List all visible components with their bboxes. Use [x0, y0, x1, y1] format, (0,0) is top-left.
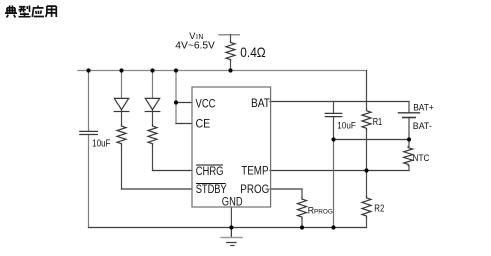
- overline CHRG: [196, 164, 223, 166]
- svg-text:NTC: NTC: [413, 153, 430, 164]
- svg-text:0.4Ω: 0.4Ω: [240, 45, 265, 60]
- wire rail to R1 vertical: [366, 71, 368, 110]
- wire BAT- row wire: [334, 139, 410, 141]
- wire VIN input bar: [219, 34, 240, 36]
- wire VCC wire: [176, 102, 192, 104]
- wire CHRG wire: [153, 170, 193, 172]
- wire input cap to ground rail: [88, 135, 90, 228]
- resistor R4 (CHRG LED): [148, 125, 157, 145]
- svg-text:BAT: BAT: [251, 98, 270, 110]
- wire R1 to TEMP lead: [366, 130, 368, 171]
- node rail-C1: [86, 68, 90, 72]
- overline STDBY: [196, 183, 226, 185]
- wire LED D2 top lead: [152, 71, 154, 99]
- wire RPROG to ground lead: [301, 219, 303, 228]
- capacitor C2 10uF output: [325, 112, 341, 114]
- wire CE wire: [176, 123, 192, 125]
- wire PROG down to RPROG: [301, 189, 303, 198]
- wire BAT wire down to battery: [408, 102, 410, 113]
- wire battery minus to NTC lead: [408, 140, 410, 147]
- resistor R2: [362, 196, 371, 217]
- LED D2: [145, 98, 159, 109]
- wire R4 to CHRG lead: [152, 145, 154, 170]
- ground: [221, 228, 242, 246]
- wire TEMP wire: [270, 170, 409, 172]
- wire STDBY wire: [122, 188, 193, 190]
- node RPROG gnd: [300, 225, 304, 229]
- svg-text:R2: R2: [374, 204, 384, 215]
- wire bottom ground rail: [89, 227, 367, 229]
- node rail-R0.4: [228, 68, 232, 72]
- node rail-VCC: [174, 68, 178, 72]
- IC U1 battery charger body: [192, 87, 271, 207]
- wire LED D1 to R3 lead: [121, 110, 123, 125]
- svg-text:CE: CE: [196, 119, 211, 131]
- wire VIN bar to R 0.4 lead: [230, 35, 232, 41]
- svg-text:PROG: PROG: [240, 184, 269, 196]
- node C2 gnd: [331, 225, 335, 229]
- resistor 0.4 ohm: [226, 41, 235, 61]
- wire GND pin stub: [230, 207, 232, 228]
- wire NTC to TEMP lead: [408, 166, 410, 171]
- battery terminal BAT+/BAT-: [398, 112, 419, 114]
- svg-text:BAT+: BAT+: [413, 103, 434, 114]
- svg-text:BAT-: BAT-: [413, 121, 432, 132]
- node BAT-/NTC: [407, 137, 411, 141]
- node rail-D2: [150, 68, 154, 72]
- thermistor NTC: [404, 146, 413, 165]
- resistor R1: [362, 109, 371, 129]
- capacitor C1 10uF input: [80, 130, 98, 132]
- wire R 0.4 to rail lead: [230, 61, 232, 71]
- resistor R3 (STDBY LED): [117, 125, 126, 145]
- LED D1: [114, 98, 128, 109]
- svg-text:VCC: VCC: [196, 99, 216, 111]
- wire top VCC rail: [78, 70, 367, 72]
- svg-text:4V~6.5V: 4V~6.5V: [175, 40, 215, 51]
- wire BAT wire: [270, 101, 409, 103]
- node GND pin: [229, 225, 233, 229]
- node VCC/CE: [174, 100, 178, 104]
- title text 典型应用 (Typical Application) drawn strokes: [5, 6, 56, 18]
- node rail-D1: [119, 68, 123, 72]
- wire output cap top lead: [333, 102, 335, 114]
- wire R2 top lead: [366, 171, 368, 197]
- svg-text:10uF: 10uF: [337, 120, 356, 131]
- wire input cap top lead: [88, 71, 90, 132]
- node C2/BAT-: [331, 137, 335, 141]
- wire R3 to STDBY lead: [121, 145, 123, 189]
- svg-text:GND: GND: [222, 197, 243, 209]
- resistor RPROG: [298, 198, 307, 219]
- wire output cap bottom lead: [333, 117, 335, 140]
- node TEMP/R1/R2: [364, 168, 368, 172]
- wire LED D1 top lead: [121, 71, 123, 99]
- svg-text:TEMP: TEMP: [241, 165, 268, 177]
- svg-text:10uF: 10uF: [92, 138, 110, 149]
- wire PROG wire: [270, 188, 302, 190]
- svg-text:R1: R1: [373, 117, 383, 128]
- svg-text:STDBY: STDBY: [196, 184, 227, 196]
- wire LED D2 to R4 lead: [152, 110, 154, 125]
- wire cap node to ground rail: [333, 140, 335, 228]
- wire battery minus lead: [408, 118, 410, 140]
- wire R2 bottom lead: [366, 218, 368, 228]
- svg-text:CHRG: CHRG: [196, 166, 224, 178]
- wire rail to VCC/CE vertical: [175, 71, 177, 124]
